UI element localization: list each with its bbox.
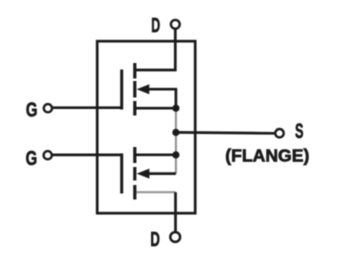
wire: top D lead down into package to Q1 drain (136, 29, 175, 70)
wire: G1 lead to Q1 gate (52, 106, 121, 109)
svg-text:S: S (295, 120, 304, 143)
terminal circle G2 (44, 151, 52, 159)
wire: drain stub of Q2 (grey) (136, 191, 175, 193)
svg-text:(FLANGE): (FLANGE) (225, 145, 309, 165)
svg-text:G: G (26, 148, 38, 170)
Q2 gate plate (120, 153, 123, 193)
terminal circle D top (171, 20, 180, 29)
Q1 channel bar (drain) (133, 63, 136, 79)
wire: Q1 source stub (136, 107, 176, 110)
svg-text:D: D (151, 15, 160, 37)
Q1 body arrow (137, 84, 150, 94)
terminal circle D bottom (170, 232, 180, 242)
wire: Q2 body stub (141, 172, 176, 175)
terminal circle S (275, 129, 283, 137)
package outline (97, 41, 195, 213)
junction dot 2 (172, 129, 179, 136)
svg-text:D: D (150, 228, 160, 251)
Q2 body arrow (137, 169, 150, 179)
Q2 channel bar (drain) (133, 185, 136, 200)
Q1 channel bar (body) (133, 81, 136, 98)
junction dot 1 (172, 105, 179, 112)
junction dot 3 (172, 151, 179, 158)
wire: Q1 body stub to node S (141, 89, 176, 107)
wire: G2 lead to Q2 gate (52, 154, 122, 157)
Q2 channel bar (body) (133, 167, 136, 181)
Q2 channel bar (source) (133, 147, 136, 163)
wire: Q2 source stub (136, 153, 176, 156)
svg-text:G: G (26, 99, 38, 121)
Q1 channel bar (source) (133, 101, 136, 116)
Q1 gate plate (120, 70, 123, 110)
terminal circle G1 (44, 104, 52, 112)
wire: Q2 drain lead down to bottom D terminal (174, 192, 177, 231)
wire: common source out to S terminal (176, 131, 275, 135)
node S bus (grey vertical junction wire) (175, 89, 177, 173)
